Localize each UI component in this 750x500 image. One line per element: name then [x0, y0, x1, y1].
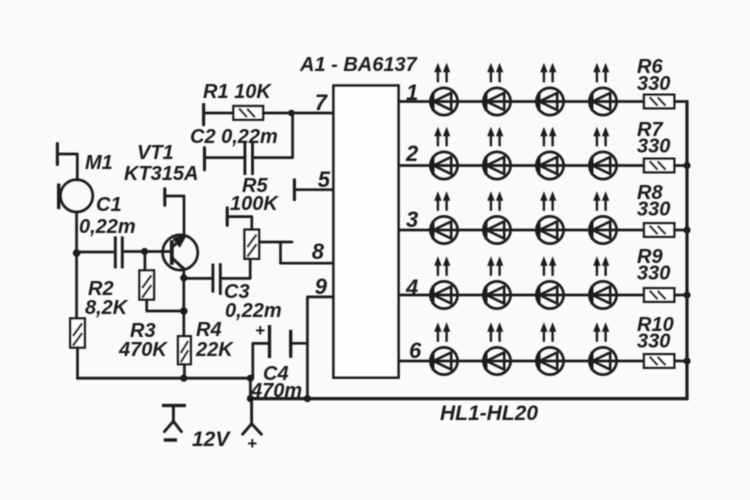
svg-text:1: 1 — [406, 80, 418, 105]
svg-text:12V: 12V — [192, 428, 231, 451]
collector stub tick — [163, 189, 166, 206]
wire row 1 — [399, 100, 645, 103]
LED HL row4 col1 — [430, 281, 457, 308]
wire — [147, 300, 184, 311]
R1 left tick — [202, 104, 205, 124]
svg-text:330: 330 — [637, 263, 670, 285]
wire — [674, 229, 687, 232]
svg-text:100K: 100K — [230, 193, 279, 215]
wire — [291, 112, 335, 115]
node C4/rail junction — [247, 375, 254, 382]
wire — [222, 259, 250, 279]
wire pin 9 — [307, 297, 333, 399]
svg-text:+: + — [255, 321, 265, 340]
wire row 2 — [399, 164, 645, 167]
node mic/C1/R2 junction — [73, 249, 81, 257]
wire — [281, 242, 336, 263]
LED HL row4 col2 — [483, 281, 510, 308]
LED HL row4 col3 — [536, 281, 563, 308]
svg-text:C2 0,22m: C2 0,22m — [190, 126, 278, 148]
svg-text:330: 330 — [637, 199, 670, 221]
wire — [75, 253, 78, 318]
LED HL row1 col1 — [430, 88, 457, 115]
capacitor C3 — [211, 264, 214, 293]
resistor R10 — [644, 354, 674, 368]
wire — [294, 188, 335, 191]
capacitor C2 — [251, 141, 254, 175]
node bus row 2 — [683, 162, 690, 169]
LED HL row1 col3 — [536, 88, 563, 115]
svg-text:8,2K: 8,2K — [85, 297, 129, 319]
LED HL row3 col4 — [589, 216, 616, 243]
pin 5 tick — [293, 180, 296, 200]
LED HL row3 col2 — [483, 216, 510, 243]
resistor R5 — [245, 230, 260, 259]
wire row 3 — [399, 229, 645, 232]
node bus row 3 — [683, 226, 690, 233]
svg-text:0,22m: 0,22m — [79, 216, 136, 238]
microphone M1 — [60, 180, 92, 212]
svg-text:R4: R4 — [196, 319, 222, 341]
wire — [263, 112, 291, 115]
capacitor C4 — [289, 330, 292, 358]
wire bottom bus — [250, 397, 687, 400]
power +12V terminal — [250, 399, 253, 424]
svg-text:8: 8 — [312, 239, 325, 264]
wire — [75, 212, 78, 253]
svg-text:330: 330 — [637, 331, 670, 353]
LED HL row2 col2 — [483, 152, 510, 179]
wire row 4 — [399, 294, 645, 297]
resistor R8 — [644, 223, 674, 237]
node R3/emitter junction — [180, 307, 188, 315]
node base junction — [141, 248, 148, 255]
wire — [674, 100, 687, 103]
resistor R1 — [233, 106, 263, 120]
resistor R4 — [178, 336, 191, 364]
wire — [144, 252, 147, 271]
wire — [292, 342, 307, 345]
wire — [674, 360, 687, 363]
svg-text:3: 3 — [406, 207, 418, 232]
wire — [227, 217, 252, 230]
svg-text:5: 5 — [318, 167, 331, 192]
wire — [205, 156, 244, 159]
svg-text:7: 7 — [315, 90, 329, 115]
wire — [76, 348, 79, 379]
wire — [182, 268, 185, 311]
wire — [145, 250, 171, 253]
wire — [125, 250, 145, 253]
node R4/rail junction — [180, 375, 187, 382]
wire collector stub — [165, 196, 184, 237]
node R1/C2/pin7 junction — [288, 110, 295, 117]
wire bottom-left rail — [78, 377, 251, 380]
svg-text:470K: 470K — [118, 339, 168, 361]
svg-text:0,22m: 0,22m — [225, 300, 282, 322]
wire — [674, 164, 687, 167]
LED HL row6 col4 — [589, 347, 616, 374]
wire right bus — [685, 102, 688, 399]
resistor R3 — [139, 270, 154, 299]
transistor VT1 — [163, 235, 198, 270]
svg-text:+: + — [247, 434, 257, 453]
capacitor C1 — [114, 236, 117, 268]
wire — [259, 241, 292, 244]
svg-text:M1: M1 — [85, 152, 113, 174]
resistor R6 — [644, 95, 674, 109]
svg-text:C1: C1 — [96, 194, 122, 216]
wire — [57, 154, 77, 180]
svg-text:22K: 22K — [195, 339, 234, 361]
LED HL row6 col3 — [536, 347, 563, 374]
resistor R2 — [70, 318, 85, 347]
LED HL row2 col4 — [589, 152, 616, 179]
svg-text:330: 330 — [637, 136, 670, 158]
wire row 6 — [399, 360, 645, 363]
wire — [204, 112, 234, 115]
svg-text:A1 - BA6137: A1 - BA6137 — [299, 54, 418, 76]
LED HL row6 col1 — [430, 347, 457, 374]
LED HL row3 col1 — [430, 216, 457, 243]
LED HL row1 col2 — [483, 88, 510, 115]
svg-text:4: 4 — [405, 275, 418, 300]
power -12V terminal — [162, 404, 186, 407]
svg-text:R1 10K: R1 10K — [203, 81, 272, 103]
wire — [77, 251, 113, 254]
node pin9/rail junction — [304, 395, 311, 402]
svg-text:HL1-HL20: HL1-HL20 — [440, 402, 538, 425]
LED HL row6 col2 — [483, 347, 510, 374]
node +12V/rail junction — [247, 395, 254, 402]
op-amp IC A1 BA6137 — [334, 86, 399, 378]
resistor R9 — [644, 288, 674, 302]
svg-text:330: 330 — [637, 73, 670, 95]
C2 left tick — [203, 148, 206, 170]
LED HL row2 col1 — [430, 152, 457, 179]
svg-text:2: 2 — [405, 141, 419, 166]
resistor R7 — [644, 159, 674, 173]
wire — [182, 311, 185, 336]
wire — [183, 364, 186, 378]
LED HL row2 col3 — [536, 152, 563, 179]
node bus row 4 — [683, 291, 690, 298]
wire — [184, 277, 211, 280]
svg-text:9: 9 — [315, 274, 328, 299]
wire — [674, 294, 687, 297]
microphone M1 terminal tick — [56, 144, 59, 165]
R5 top tick — [226, 208, 229, 225]
LED HL row3 col3 — [536, 216, 563, 243]
wire — [253, 343, 268, 378]
node bus row 6 — [683, 357, 690, 364]
node emitter/C3 junction — [180, 274, 187, 281]
wire — [249, 378, 252, 398]
wire — [254, 113, 292, 158]
svg-text:KT315A: KT315A — [124, 163, 198, 185]
LED HL row1 col4 — [589, 88, 616, 115]
LED HL row4 col4 — [589, 281, 616, 308]
svg-text:6: 6 — [409, 338, 422, 363]
svg-text:VT1: VT1 — [137, 142, 174, 164]
